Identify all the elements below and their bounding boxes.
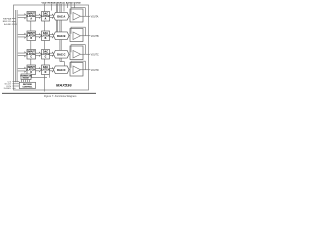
dac latch D: [42, 65, 50, 75]
wire latch load lines: [22, 80, 30, 83]
input latch A: [27, 12, 36, 22]
op-amp A buffer: [70, 9, 83, 22]
svg-text:VOUTA: VOUTA: [91, 15, 99, 18]
wire VSS pin stub: [70, 4, 72, 9]
pin VOUTD: [91, 70, 99, 72]
wire DAC A to op-amp A: [69, 15, 73, 17]
wire input-latch clock column: [30, 12, 32, 80]
wire REFCD vertical: [60, 5, 61, 50]
svg-text:A: A: [45, 18, 47, 21]
wire VDD pin stub: [67, 4, 69, 9]
svg-text:RESET: RESET: [23, 78, 30, 80]
wire feedback loop A: [71, 8, 85, 17]
wire DAC D to op-amp D: [69, 69, 73, 71]
bus arrow latch D to dac latch D: [36, 68, 42, 72]
DAC B: [54, 32, 70, 40]
chip outline MAX536: [14, 5, 89, 90]
bus arrow shift register to latch C: [18, 52, 27, 57]
wire output D to pin: [81, 69, 91, 71]
bus arrow latch B to dac latch B: [36, 34, 42, 38]
dac latch A: [42, 12, 50, 22]
svg-text:A: A: [30, 18, 32, 21]
pin DGND (bottom left): [4, 88, 16, 90]
power-on reset box: [20, 74, 32, 80]
bus arrow latch C to dac latch C: [36, 52, 42, 56]
bus arrow dac latch C to DAC C: [50, 52, 55, 56]
svg-text:Figure 7. Functional Diagram.: Figure 7. Functional Diagram.: [44, 95, 77, 98]
dac latch C: [42, 50, 50, 60]
wire top pin ticks: [56, 4, 74, 9]
input latch C: [27, 50, 36, 60]
dac latch B: [42, 31, 50, 41]
svg-text:DAC B: DAC B: [57, 34, 65, 38]
figure rule: [2, 92, 96, 94]
bus arrow latch A to dac latch A: [36, 14, 42, 18]
wire DAC C to op-amp C: [69, 53, 73, 55]
wire DGND stub into chip: [51, 4, 53, 11]
svg-text:MAX536: MAX536: [56, 83, 72, 88]
pin AGND (left): [4, 23, 17, 26]
svg-text:DGND: DGND: [4, 88, 12, 90]
svg-text:C: C: [45, 57, 47, 59]
caption text: [44, 95, 77, 98]
wire output C to pin: [81, 53, 91, 55]
pin DIN (bottom left): [7, 86, 20, 88]
op-amp C buffer: [70, 46, 83, 60]
svg-text:REFAB: REFAB: [3, 17, 12, 20]
wire feedback loop C: [71, 45, 85, 55]
pin VOUTC: [91, 54, 99, 56]
input latch B: [27, 31, 36, 41]
bus arrow shift register to latch D: [18, 67, 27, 72]
bus arrow dac latch A to DAC A: [50, 14, 55, 18]
svg-text:C: C: [30, 57, 32, 59]
bus arrow dac latch B to DAC B: [50, 34, 55, 38]
op-amp B buffer: [70, 29, 83, 42]
wire dac-latch clock column: [43, 4, 45, 80]
input latch D: [27, 65, 36, 75]
bus arrow dac latch D to DAC D: [50, 68, 55, 72]
svg-text:DAC A: DAC A: [57, 14, 65, 18]
wire LDAC line under row D: [26, 75, 50, 92]
svg-text:CONTROL: CONTROL: [22, 86, 33, 88]
wire output B to pin: [81, 35, 91, 37]
pin SCLK (bottom left): [4, 84, 19, 86]
svg-text:VOUTD: VOUTD: [91, 70, 99, 72]
decode control logic box: [19, 82, 35, 88]
svg-text:VDD REFAB REFCD AGND DGND: VDD REFAB REFCD AGND DGND: [42, 2, 82, 5]
svg-text:DAC D: DAC D: [57, 68, 65, 72]
wire REFAB vertical: [56, 5, 57, 33]
pin CS (bottom left): [8, 81, 20, 83]
top pin labels VDD VSS REFAB REFCD AGND DGND: [42, 2, 82, 5]
svg-text:B: B: [45, 38, 47, 40]
bus arrow shift register to latch B: [18, 33, 27, 38]
svg-text:VOUTC: VOUTC: [91, 54, 99, 56]
pin VOUTA: [91, 15, 99, 18]
pin REFCD (left): [3, 21, 16, 23]
wire output A to pin: [81, 15, 91, 17]
bus arrow shift register to latch A: [18, 14, 27, 19]
part number MAX536: [56, 83, 72, 88]
svg-text:DAC C: DAC C: [57, 52, 65, 56]
wire feedback loop B: [71, 27, 85, 36]
svg-text:D: D: [45, 72, 47, 74]
pin VOUTB: [91, 36, 99, 38]
svg-text:REFCD: REFCD: [3, 21, 12, 23]
pin REFAB (left): [3, 17, 16, 20]
svg-text:B: B: [30, 38, 32, 40]
wire AGND vertical: [60, 5, 65, 67]
svg-text:VOUTB: VOUTB: [91, 36, 99, 38]
DAC C: [54, 50, 70, 58]
DAC A: [54, 12, 70, 20]
wire DAC B to op-amp B: [69, 35, 73, 37]
op-amp D buffer: [70, 63, 83, 77]
svg-text:AGND: AGND: [4, 23, 11, 26]
DAC D: [54, 66, 70, 74]
wire feedback loop D: [71, 61, 85, 70]
wire serial data bus: [16, 10, 18, 82]
